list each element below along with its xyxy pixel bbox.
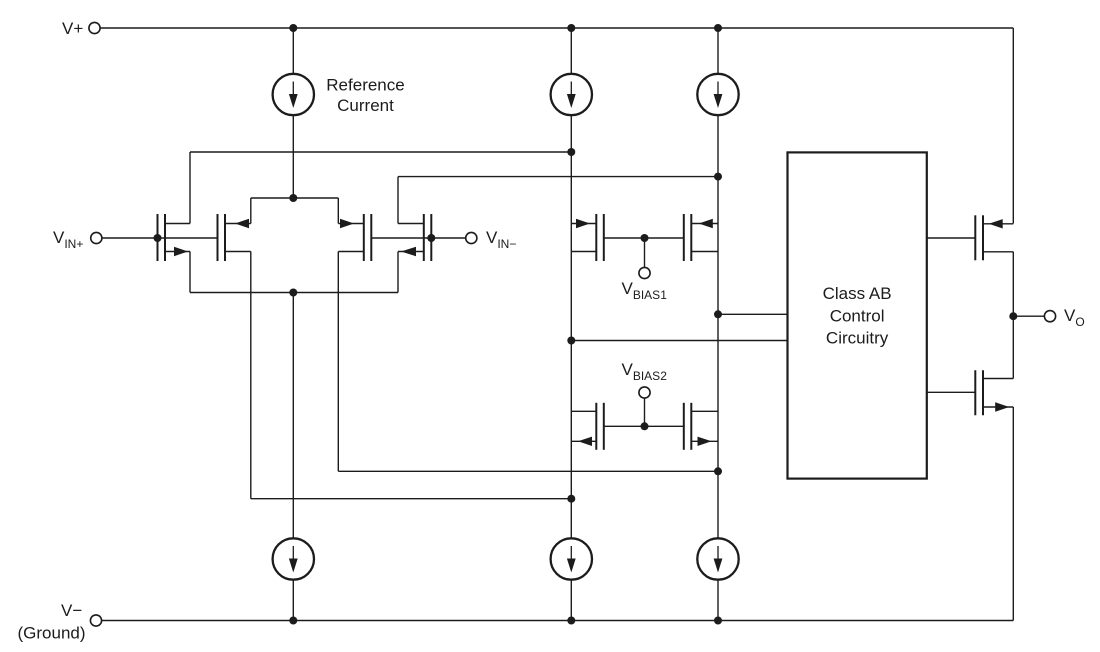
svg-text:VO: VO <box>1064 306 1085 329</box>
svg-text:VBIAS2: VBIAS2 <box>622 360 668 383</box>
svg-text:VIN+: VIN+ <box>53 228 83 251</box>
svg-text:VBIAS1: VBIAS1 <box>622 279 668 302</box>
svg-text:Control: Control <box>830 307 885 326</box>
svg-text:Class AB: Class AB <box>823 284 892 303</box>
svg-text:V+: V+ <box>62 19 83 38</box>
svg-text:(Ground): (Ground) <box>18 624 86 643</box>
svg-text:V−: V− <box>61 601 82 620</box>
svg-text:VIN−: VIN− <box>486 228 516 251</box>
svg-text:Reference: Reference <box>326 76 404 95</box>
svg-text:Circuitry: Circuitry <box>826 329 889 348</box>
svg-text:Current: Current <box>337 96 394 115</box>
